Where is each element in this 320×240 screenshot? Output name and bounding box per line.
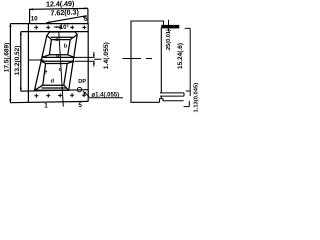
bottom pin crosses xyxy=(34,93,86,98)
svg-text:7.62(0.3): 7.62(0.3) xyxy=(50,7,79,17)
svg-text:b: b xyxy=(64,44,68,50)
segment width extension lines xyxy=(75,52,102,67)
left leader arrow to e segment xyxy=(29,59,44,61)
dimension 7.62 line (sloped as in scan) xyxy=(46,16,86,23)
1.4 dim vertical xyxy=(93,52,95,57)
10 deg slant label xyxy=(54,26,60,28)
dimension 13.2 vertical line xyxy=(20,32,22,92)
1.13 bracket xyxy=(188,101,190,107)
side view body xyxy=(131,21,164,102)
svg-text:1: 1 xyxy=(44,102,48,109)
svg-text:DP: DP xyxy=(78,79,86,85)
digit outer outline xyxy=(35,32,78,91)
upper inner hole xyxy=(49,40,70,55)
axis dash xyxy=(123,58,142,60)
svg-text:e: e xyxy=(44,69,47,75)
leader to text xyxy=(94,58,102,60)
box bottom edge (sloped) with extension left xyxy=(10,101,88,102)
window top line xyxy=(21,31,88,33)
dim 12.4 left extension xyxy=(29,9,31,24)
svg-text:10: 10 xyxy=(31,16,38,23)
15.24 bracket xyxy=(185,27,190,29)
dimension 17.5 vertical line xyxy=(9,24,11,103)
svg-text:1.13(0.045): 1.13(0.045) xyxy=(194,83,200,113)
body right edge upper (between tabs) xyxy=(160,28,162,93)
dim 12.4 right extension xyxy=(87,9,89,24)
lower inner hole xyxy=(43,64,67,86)
svg-text:13.2(0.52): 13.2(0.52) xyxy=(14,46,21,76)
DP circle xyxy=(77,87,81,91)
bottom tab xyxy=(160,92,184,94)
dimension 12.4 line xyxy=(30,7,88,10)
top tab xyxy=(162,25,179,28)
body outline: top edge with step, left edge, bottom edge xyxy=(131,21,164,102)
outer package box front view xyxy=(28,24,88,103)
g segment lines xyxy=(42,56,75,58)
box top edge extension left xyxy=(10,23,28,25)
svg-text:1.4(.055): 1.4(.055) xyxy=(103,42,110,69)
.25 dim verticals xyxy=(168,20,170,26)
d segment top xyxy=(42,87,67,89)
svg-text:c: c xyxy=(59,67,62,73)
svg-text:f: f xyxy=(50,44,52,50)
top pin crosses xyxy=(34,25,86,29)
arrowheads dims xyxy=(9,7,88,102)
a segment bottom xyxy=(51,36,73,38)
svg-text:15.24(.6): 15.24(.6) xyxy=(177,43,184,69)
svg-text:5: 5 xyxy=(78,102,82,109)
svg-text:g: g xyxy=(56,53,60,59)
svg-text:10°: 10° xyxy=(60,25,70,31)
segment notch separators xyxy=(47,35,52,39)
svg-text:.25(0.01): .25(0.01) xyxy=(166,29,172,52)
svg-text:d: d xyxy=(51,79,55,85)
bottom foot step xyxy=(160,99,184,103)
window bottom line (sloped) xyxy=(21,90,88,92)
vertical centerline through digit xyxy=(59,32,64,107)
svg-text:17.5(.689): 17.5(.689) xyxy=(4,43,11,73)
body right edge lower stub xyxy=(160,96,162,99)
